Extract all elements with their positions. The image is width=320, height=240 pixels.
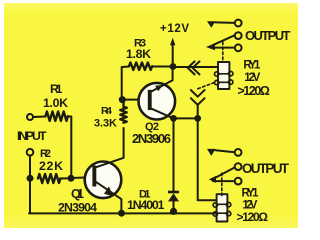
svg-text:RY1: RY1 [242,187,260,199]
svg-text:1N4001: 1N4001 [127,198,165,212]
svg-text:>120Ω: >120Ω [237,84,270,98]
svg-text:OUTPUT: OUTPUT [245,28,291,43]
svg-text:1.0K: 1.0K [43,96,68,110]
svg-text:R4: R4 [101,105,112,117]
svg-text:2N3906: 2N3906 [132,131,171,146]
svg-text:3.3K: 3.3K [94,117,117,129]
svg-text:INPUT: INPUT [17,129,47,143]
svg-text:12V: 12V [244,72,260,84]
svg-text:R2: R2 [40,148,51,160]
svg-text:22K: 22K [39,159,63,173]
svg-text:2N3904: 2N3904 [58,200,97,214]
svg-text:+12V: +12V [160,23,189,35]
svg-text:1.8K: 1.8K [126,47,151,61]
svg-text:>120Ω: >120Ω [237,210,269,224]
svg-text:OUTPUT: OUTPUT [242,161,290,176]
svg-text:R1: R1 [50,82,63,96]
svg-text:RY1: RY1 [243,60,261,72]
svg-text:Q1: Q1 [71,187,84,201]
